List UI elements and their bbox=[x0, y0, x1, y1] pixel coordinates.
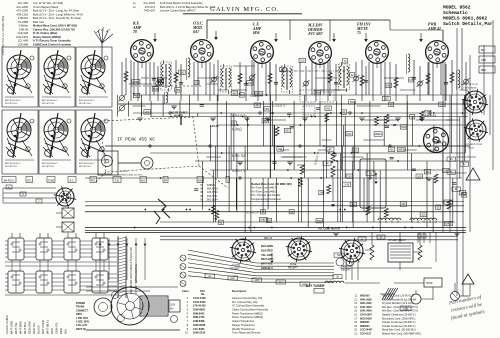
wire bbox=[427, 62, 429, 95]
svg-text:1MEG: 1MEG bbox=[132, 81, 139, 84]
svg-text:1 PRI 115V: 1 PRI 115V bbox=[76, 317, 88, 320]
capacitor bbox=[290, 125, 294, 127]
svg-text:350: 350 bbox=[263, 120, 268, 123]
parts table right rows bbox=[354, 295, 421, 336]
svg-text:1806-8681: 1806-8681 bbox=[193, 308, 206, 312]
capacitor bbox=[194, 188, 198, 190]
parts table left rows bbox=[185, 296, 269, 335]
wire bbox=[329, 60, 331, 95]
svg-text:1MEG: 1MEG bbox=[260, 219, 267, 222]
tube V3 (I. F. AMP 6D6) bbox=[251, 23, 274, 64]
svg-text:SPKR: SPKR bbox=[426, 282, 433, 285]
capacitor bbox=[334, 82, 338, 84]
svg-text:GALVIN MFG. CO.: GALVIN MFG. CO. bbox=[210, 6, 280, 13]
svg-text:302: 302 bbox=[278, 148, 283, 151]
svg-text:Bulb (6.3 V--.25 A - Long) No.: Bulb (6.3 V--.25 A - Long) No. 44 Clear bbox=[33, 9, 79, 13]
svg-text:3 FIL 6.3V: 3 FIL 6.3V bbox=[76, 324, 88, 327]
value label bbox=[314, 90, 321, 94]
value label bbox=[152, 87, 159, 91]
svg-text:6M8: 6M8 bbox=[315, 92, 320, 95]
wire bbox=[465, 62, 467, 101]
tuner mechanism drawing bottom 3 bbox=[76, 110, 112, 174]
svg-text:100: 100 bbox=[460, 192, 465, 195]
resistor bbox=[447, 200, 451, 209]
svg-text:47B-1318: 47B-1318 bbox=[16, 12, 28, 16]
cable harness wires bbox=[188, 250, 334, 282]
right column small boxes bbox=[444, 157, 469, 204]
oscillator coil L2 bbox=[187, 58, 190, 80]
svg-text:RECEPT: RECEPT bbox=[288, 267, 298, 270]
lever arm cable hatched band bbox=[118, 236, 126, 298]
svg-text:ANT EDGE No 2: ANT EDGE No 2 bbox=[79, 99, 95, 102]
mid parts list small bbox=[200, 184, 218, 201]
svg-text:510: 510 bbox=[180, 71, 185, 74]
svg-text:WHT-GRN: WHT-GRN bbox=[10, 321, 14, 334]
value label bbox=[231, 91, 238, 95]
svg-text:4841-0692: 4841-0692 bbox=[360, 298, 372, 301]
resistor bbox=[300, 165, 304, 174]
value label bbox=[277, 147, 284, 151]
svg-text:AC: AC bbox=[420, 235, 423, 238]
svg-text:I.F. Coil and Bezel Assembly: I.F. Coil and Bezel Assembly bbox=[232, 304, 265, 308]
value label bbox=[264, 107, 271, 111]
svg-text:MODELS 8961,8962: MODELS 8961,8962 bbox=[443, 16, 487, 22]
svg-text:YEL-COML MOTOR: YEL-COML MOTOR bbox=[318, 228, 340, 231]
heater choke coils bbox=[378, 218, 437, 223]
svg-text:Ranger Transformer: Ranger Transformer bbox=[232, 323, 255, 327]
IF transformer T2 bbox=[221, 64, 232, 94]
svg-text:50M: 50M bbox=[317, 220, 322, 223]
trimmer capacitor bbox=[250, 75, 255, 80]
svg-text:BLU: BLU bbox=[64, 329, 68, 334]
wire bbox=[175, 60, 177, 95]
wire bbox=[157, 66, 159, 101]
svg-text:Tuner Magnet (Steel): Tuner Magnet (Steel) bbox=[33, 5, 58, 9]
svg-text:WHT-BRN: WHT-BRN bbox=[19, 321, 23, 334]
value label bbox=[262, 119, 269, 123]
svg-text:3-30: 3-30 bbox=[384, 98, 390, 101]
mid verticals bbox=[118, 95, 466, 178]
ground symbols bbox=[137, 106, 460, 236]
capacitor bbox=[412, 168, 416, 170]
switch wafer bank bbox=[5, 238, 117, 295]
svg-text:9801605: 9801605 bbox=[360, 295, 370, 298]
parts list column 4 descriptions bbox=[133, 1, 215, 13]
svg-text:1CL-1845: 1CL-1845 bbox=[16, 5, 28, 9]
value label bbox=[144, 110, 151, 114]
svg-text:6.8 6.0 4~: 6.8 6.0 4~ bbox=[232, 114, 247, 118]
svg-text:Bulb (#44 V--1 1/2 W Bayonet): Bulb (#44 V--1 1/2 W Bayonet) White No. … bbox=[160, 5, 215, 9]
svg-text:Rotary Switch (66633): Rotary Switch (66633) bbox=[33, 35, 61, 39]
svg-text:RECT 80: RECT 80 bbox=[76, 328, 87, 331]
svg-text:POL: POL bbox=[91, 180, 96, 182]
value label bbox=[382, 96, 390, 100]
value label bbox=[389, 102, 394, 106]
svg-text:302: 302 bbox=[265, 108, 270, 111]
svg-text:BLK: BLK bbox=[481, 50, 486, 52]
wire bbox=[445, 64, 447, 101]
gnd box bbox=[400, 306, 411, 310]
svg-text:6.8 6.1 V: 6.8 6.1 V bbox=[232, 169, 246, 173]
svg-text:RED-GRN: RED-GRN bbox=[28, 321, 32, 334]
svg-text:1W: 1W bbox=[319, 192, 323, 195]
svg-text:50M: 50M bbox=[153, 88, 158, 91]
svg-text:220: 220 bbox=[401, 203, 406, 206]
svg-text:1806-8038: 1806-8038 bbox=[193, 323, 206, 327]
svg-text:Tubular Condenser (25-300 V.): Tubular Condenser (25-300 V.) bbox=[382, 325, 416, 328]
resistor bbox=[299, 177, 303, 186]
value label bbox=[420, 212, 427, 216]
capacitor bbox=[364, 80, 368, 82]
tube V7 (PWR AMP 42) bbox=[423, 109, 449, 153]
svg-text:639521: 639521 bbox=[207, 184, 216, 187]
AC triangle bbox=[462, 274, 474, 284]
svg-text:50M: 50M bbox=[386, 84, 391, 87]
wire bbox=[299, 62, 301, 95]
svg-text:Class: Class bbox=[182, 289, 189, 293]
wire bbox=[305, 66, 307, 101]
svg-text:75: 75 bbox=[357, 31, 361, 35]
relay series resistor bbox=[370, 245, 374, 260]
wire bbox=[269, 62, 271, 95]
svg-text:1806-5316: 1806-5316 bbox=[193, 331, 206, 335]
svg-text:Molded Mica Cond. (50 MMF 295): Molded Mica Cond. (50 MMF 295) bbox=[251, 182, 292, 186]
value label bbox=[325, 106, 332, 110]
value label bbox=[462, 193, 467, 197]
parts list column 3 part numbers bbox=[143, 1, 155, 13]
svg-text:Metal Wire Cond. (50-500 MU.): Metal Wire Cond. (50-500 MU.) bbox=[382, 329, 416, 332]
svg-text:28M-1706: 28M-1706 bbox=[193, 315, 205, 319]
resistor bbox=[375, 117, 379, 126]
value label bbox=[218, 220, 223, 224]
svg-text:60~: 60~ bbox=[170, 309, 175, 311]
svg-text:100: 100 bbox=[347, 133, 352, 136]
interstage transformer boxes left bbox=[56, 208, 74, 232]
svg-text:PH: PH bbox=[164, 180, 168, 182]
wire bbox=[130, 60, 132, 101]
value label bbox=[341, 110, 346, 114]
svg-text:24M-8368: 24M-8368 bbox=[193, 319, 205, 323]
svg-text:Choke Coil and Bezel Assembly: Choke Coil and Bezel Assembly bbox=[232, 308, 269, 312]
svg-text:BLK-BRN: BLK-BRN bbox=[261, 244, 273, 248]
E2Y TUNER table header bbox=[306, 284, 325, 293]
grid cap arrows above tubes bbox=[153, 31, 423, 42]
svg-text:1M: 1M bbox=[447, 202, 450, 204]
value label bbox=[416, 174, 423, 178]
wire bbox=[365, 66, 367, 95]
wire bbox=[355, 62, 357, 95]
svg-text:RED 40: RED 40 bbox=[264, 238, 273, 240]
resistor bbox=[384, 208, 388, 217]
relay shunt resistor bbox=[418, 245, 422, 260]
svg-text:7400-607: 7400-607 bbox=[144, 9, 156, 13]
svg-text:78: 78 bbox=[133, 30, 137, 34]
output coil L7 bbox=[457, 70, 460, 90]
power transformer block bbox=[360, 159, 386, 208]
svg-text:66A-5402: 66A-5402 bbox=[207, 188, 218, 191]
tone condensers bbox=[334, 253, 354, 266]
value label bbox=[239, 93, 244, 97]
rule under title bbox=[183, 13, 302, 15]
coil L5 bbox=[407, 54, 410, 74]
alignment dashed diagonals bbox=[96, 166, 228, 188]
svg-text:1MEG: 1MEG bbox=[398, 149, 405, 152]
resistor bbox=[124, 72, 128, 82]
svg-text:561-1084: 561-1084 bbox=[207, 198, 218, 201]
horizontal bus wires bbox=[85, 95, 470, 240]
gang capacitor trimmers bbox=[118, 62, 125, 112]
value label bbox=[374, 132, 382, 136]
svg-text:400: 400 bbox=[326, 107, 331, 110]
value label bbox=[397, 147, 405, 151]
svg-text:Antenna Coil and Mtg. Clip: Antenna Coil and Mtg. Clip bbox=[232, 296, 263, 300]
svg-text:SET AT FULL: SET AT FULL bbox=[5, 165, 18, 168]
svg-text:410: 410 bbox=[134, 95, 139, 98]
svg-text:1MEG: 1MEG bbox=[375, 133, 382, 136]
svg-text:VOL: VOL bbox=[27, 180, 32, 182]
transformer feed resistors bbox=[323, 147, 335, 207]
AM antenna circle bbox=[411, 294, 421, 304]
svg-text:Switch Details,Par: Switch Details,Par bbox=[443, 21, 493, 27]
svg-text:WHT-YEL: WHT-YEL bbox=[261, 262, 273, 266]
svg-text:100: 100 bbox=[421, 213, 426, 216]
IF transformer T1 bbox=[161, 60, 172, 92]
capacitor bbox=[444, 82, 448, 84]
svg-text:7G-1888: 7G-1888 bbox=[18, 20, 29, 24]
svg-text:50M: 50M bbox=[401, 126, 406, 129]
svg-text:410: 410 bbox=[389, 148, 394, 151]
resistor bbox=[212, 205, 216, 214]
field value box bbox=[333, 275, 342, 279]
left feed wires bbox=[3, 185, 56, 203]
condenser note text block bbox=[251, 182, 292, 201]
tuner mechanism drawing top 2 bbox=[39, 47, 75, 107]
tube V6 (PWR AMP 42) bbox=[426, 23, 449, 64]
svg-text:POWER: POWER bbox=[76, 302, 85, 305]
svg-text:4841-0091: 4841-0091 bbox=[360, 302, 372, 305]
svg-text:6-TY Electric Tuner Assembly: 6-TY Electric Tuner Assembly bbox=[33, 39, 71, 43]
svg-text:No.: No. bbox=[201, 293, 205, 296]
wire bbox=[239, 62, 241, 95]
svg-text:CONNECT-: CONNECT- bbox=[76, 309, 89, 312]
clock motor cable and plug bbox=[98, 151, 153, 177]
motor lead wires bbox=[99, 238, 147, 283]
svg-text:47D-674: 47D-674 bbox=[145, 5, 156, 9]
svg-text:ANT EDGE No 2: ANT EDGE No 2 bbox=[42, 99, 58, 102]
svg-text:BLK: BLK bbox=[279, 282, 284, 284]
clock cable color labels vertical bbox=[5, 315, 68, 334]
svg-text:2M: 2M bbox=[159, 81, 162, 84]
resistor bbox=[238, 74, 242, 84]
svg-text:0896031: 0896031 bbox=[360, 321, 370, 324]
svg-text:Compensating Condenser: Compensating Condenser bbox=[251, 197, 281, 201]
trimmer capacitor bbox=[212, 77, 217, 82]
resistor bbox=[325, 113, 329, 122]
svg-text:6.3 6.0 V: 6.3 6.0 V bbox=[272, 104, 286, 108]
svg-text:MOTOR CABLE & PLUG: MOTOR CABLE & PLUG bbox=[117, 174, 143, 177]
value label bbox=[352, 148, 359, 152]
wire bbox=[451, 60, 453, 95]
svg-text:SET AT FULL: SET AT FULL bbox=[42, 102, 55, 105]
svg-text:Description: Description bbox=[232, 289, 247, 293]
svg-text:PLUG: PLUG bbox=[467, 147, 475, 150]
svg-text:100: 100 bbox=[248, 82, 253, 85]
resistor bbox=[394, 78, 398, 88]
tube V2 (O.S.C. MOD. 6A7) bbox=[191, 22, 214, 63]
svg-text:Molded Wire Cond. (950 MMF APC: Molded Wire Cond. (950 MMF APC) bbox=[382, 333, 421, 336]
svg-text:AVC 6B7: AVC 6B7 bbox=[307, 32, 324, 36]
dial lamp socket bbox=[54, 186, 76, 208]
svg-text:6.9mΩ: 6.9mΩ bbox=[232, 128, 242, 132]
svg-text:1CL-948: 1CL-948 bbox=[18, 39, 29, 43]
svg-text:ANT EDGE No 2: ANT EDGE No 2 bbox=[79, 162, 95, 165]
svg-text:6D6: 6D6 bbox=[253, 31, 260, 35]
svg-text:R.F. Coil and Mtg. Clip: R.F. Coil and Mtg. Clip bbox=[232, 300, 258, 304]
svg-text:5-Refae: 5-Refae bbox=[18, 24, 28, 28]
svg-text:302: 302 bbox=[285, 130, 290, 133]
svg-text:ANT EDGE No 2: ANT EDGE No 2 bbox=[5, 162, 21, 165]
svg-text:Output Transformer: Output Transformer bbox=[232, 319, 254, 323]
wire bbox=[389, 62, 391, 95]
capacitor bbox=[274, 82, 278, 84]
value label bbox=[247, 81, 254, 85]
capacitor bbox=[412, 77, 416, 79]
resistor bbox=[385, 114, 389, 123]
svg-text:0896034: 0896034 bbox=[360, 325, 370, 328]
value label bbox=[299, 58, 306, 62]
trimmer capacitor bbox=[304, 81, 309, 86]
svg-text:YEL-GRN: YEL-GRN bbox=[261, 253, 273, 257]
bus tie point circles bbox=[149, 112, 431, 179]
svg-text:14M-38: 14M-38 bbox=[19, 27, 29, 31]
value label bbox=[424, 170, 431, 174]
svg-text:IONS: IONS bbox=[76, 313, 82, 316]
capacitor bbox=[452, 182, 456, 184]
value label bbox=[132, 80, 140, 84]
tuner motor and gearbox drawing bbox=[86, 287, 180, 330]
wire bbox=[213, 64, 215, 95]
resistor bbox=[366, 206, 370, 215]
svg-text:1CE-988: 1CE-988 bbox=[17, 43, 28, 47]
svg-text:Dry Disc Rectifier (12.5 ohm): Dry Disc Rectifier (12.5 ohm) bbox=[382, 302, 413, 305]
svg-text:9812-5920: 9812-5920 bbox=[360, 317, 372, 320]
svg-text:NOT USED: NOT USED bbox=[41, 320, 45, 334]
svg-text:B.C. Trimmer and Padder: B.C. Trimmer and Padder bbox=[251, 193, 281, 197]
svg-text:6.8 6.1Ω: 6.8 6.1Ω bbox=[232, 154, 245, 158]
value label bbox=[194, 80, 199, 84]
svg-text:Schematic: Schematic bbox=[443, 10, 468, 16]
svg-text:BRN: BRN bbox=[59, 328, 63, 334]
row of switch position label boxes bbox=[2, 177, 230, 183]
AVC dash-dot line bbox=[280, 70, 345, 72]
stage wiring verticals bbox=[134, 62, 445, 101]
trimmer capacitor bbox=[418, 81, 423, 86]
svg-text:2Ω: 2Ω bbox=[326, 163, 329, 165]
svg-text:510: 510 bbox=[350, 101, 355, 104]
svg-text:Tuner Motor and Remote: Tuner Motor and Remote bbox=[232, 331, 261, 335]
svg-text:2M: 2M bbox=[267, 220, 270, 223]
tube V4 (M.E.DIV DEMOD- AVC 6B7) bbox=[307, 24, 331, 65]
trimmer capacitor bbox=[156, 81, 161, 86]
svg-text:Tol--Tone Cont. (#913): Tol--Tone Cont. (#913) bbox=[251, 186, 277, 190]
value label bbox=[231, 121, 236, 125]
value label bbox=[255, 91, 263, 95]
svg-text:RED-YEL: RED-YEL bbox=[32, 322, 36, 334]
svg-text:RED: RED bbox=[50, 328, 54, 334]
svg-text:400: 400 bbox=[232, 92, 237, 95]
svg-text:105-3790: 105-3790 bbox=[207, 191, 218, 194]
wire bbox=[180, 64, 182, 101]
svg-text:1CE-24467: 1CE-24467 bbox=[360, 329, 373, 332]
dry disc rectifier stack bbox=[380, 288, 398, 300]
wave trap coil L6 bbox=[165, 92, 168, 104]
value label bbox=[388, 147, 395, 151]
svg-text:PRINTED IN U.S.A. MODEL 8562: PRINTED IN U.S.A. MODEL 8562 bbox=[1, 15, 5, 55]
svg-text:GRN: GRN bbox=[481, 60, 486, 62]
parts table left header bbox=[182, 289, 247, 296]
speaker field coil bbox=[325, 281, 344, 283]
value label bbox=[445, 221, 453, 225]
value label bbox=[409, 78, 414, 82]
svg-text:1CL-596: 1CL-596 bbox=[18, 1, 29, 5]
resistor bbox=[426, 74, 430, 84]
svg-text:Tol--Tone Cont. (#982): Tol--Tone Cont. (#982) bbox=[251, 189, 277, 193]
svg-text:SET AT FULL: SET AT FULL bbox=[79, 102, 92, 105]
right column verticals bbox=[443, 20, 493, 296]
svg-text:302: 302 bbox=[351, 203, 356, 206]
value label bbox=[316, 219, 323, 223]
resistor bbox=[360, 76, 364, 86]
trimmer capacitor bbox=[464, 79, 469, 84]
svg-text:1Ω: 1Ω bbox=[329, 149, 332, 151]
value label bbox=[349, 100, 356, 104]
capacitor bbox=[244, 83, 248, 85]
capacitor bbox=[179, 82, 183, 84]
value label bbox=[260, 217, 268, 221]
speaker plug socket (lower) bbox=[464, 118, 488, 149]
svg-text:Bulb (6.3 V--.25 A - Long) Whi: Bulb (6.3 V--.25 A - Long) White No. 44 … bbox=[33, 12, 83, 16]
svg-text:Westfly Transformer: Westfly Transformer bbox=[232, 327, 255, 331]
capacitor bbox=[390, 156, 394, 158]
svg-text:1CL-1845: 1CL-1845 bbox=[143, 1, 155, 5]
svg-text:8 (80)Clock Control Assembly: 8 (80)Clock Control Assembly bbox=[33, 43, 71, 47]
svg-text:SET AT FULL: SET AT FULL bbox=[5, 102, 18, 105]
svg-text:SET AT FULL: SET AT FULL bbox=[42, 165, 55, 168]
resistor bbox=[328, 73, 332, 83]
svg-text:WHT-BLK: WHT-BLK bbox=[23, 322, 27, 334]
value label bbox=[175, 88, 182, 92]
value label bbox=[133, 93, 140, 97]
value label bbox=[350, 202, 357, 206]
IF transformer T3 bbox=[282, 64, 293, 94]
svg-text:TONE: TONE bbox=[48, 180, 55, 182]
svg-text:1841-0906: 1841-0906 bbox=[360, 310, 372, 313]
svg-text:100: 100 bbox=[417, 175, 422, 178]
svg-text:510: 510 bbox=[300, 60, 305, 63]
gang capacitor dashed line bbox=[131, 85, 202, 87]
wire bbox=[217, 60, 219, 101]
wire bbox=[419, 66, 421, 101]
svg-text:1XC-8062: 1XC-8062 bbox=[193, 327, 205, 331]
value label bbox=[261, 210, 266, 214]
value label bbox=[350, 73, 355, 77]
value label bbox=[400, 125, 407, 129]
speaker socket back view (top) bbox=[461, 83, 488, 115]
svg-text:BLK-RED: BLK-RED bbox=[261, 248, 273, 252]
svg-text:1W: 1W bbox=[409, 79, 413, 82]
mesh short horizontal jogs bbox=[129, 66, 476, 173]
svg-text:2M: 2M bbox=[240, 94, 243, 97]
